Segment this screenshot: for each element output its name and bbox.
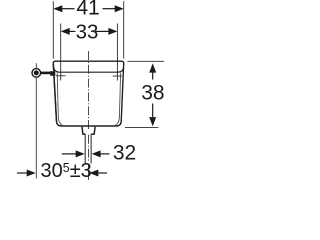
- svg-text:33: 33: [76, 20, 99, 43]
- svg-text:38: 38: [141, 81, 164, 104]
- svg-text:32: 32: [113, 141, 136, 164]
- svg-text:41: 41: [76, 0, 99, 20]
